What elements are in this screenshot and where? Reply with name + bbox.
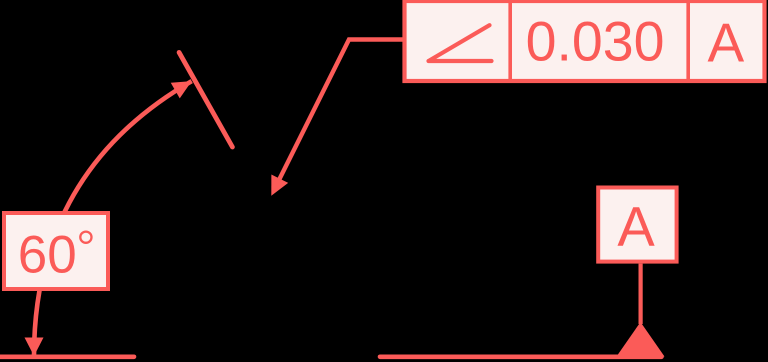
degree circle: [80, 232, 91, 243]
svg-text:0.030: 0.030: [526, 10, 665, 72]
svg-text:60: 60: [18, 225, 77, 284]
datum stem: [638, 264, 642, 324]
leader arrowhead pointing down-left: [263, 175, 288, 200]
datum triangle (filled): [617, 322, 665, 357]
FCF divider 1: [508, 0, 512, 79]
60 degree label box: [4, 213, 108, 289]
svg-text:A: A: [708, 12, 745, 74]
dimension arc (60 degree angle arc): [34, 81, 192, 356]
datum feature symbol box: [598, 188, 676, 262]
angularity symbol: [429, 25, 492, 61]
baseline left segment: [0, 354, 134, 359]
angled surface line (60 deg): [179, 52, 232, 147]
leader line from feature control frame: [276, 40, 403, 187]
arrowhead (arc top, pointing up-right at 30deg): [171, 73, 196, 98]
baseline right segment (datum surface): [380, 354, 662, 359]
arrowhead (arc bottom, pointing down onto baseline): [25, 338, 44, 357]
FCF divider 2: [686, 0, 690, 79]
svg-text:A: A: [617, 195, 655, 258]
feature control frame box: [405, 1, 765, 81]
